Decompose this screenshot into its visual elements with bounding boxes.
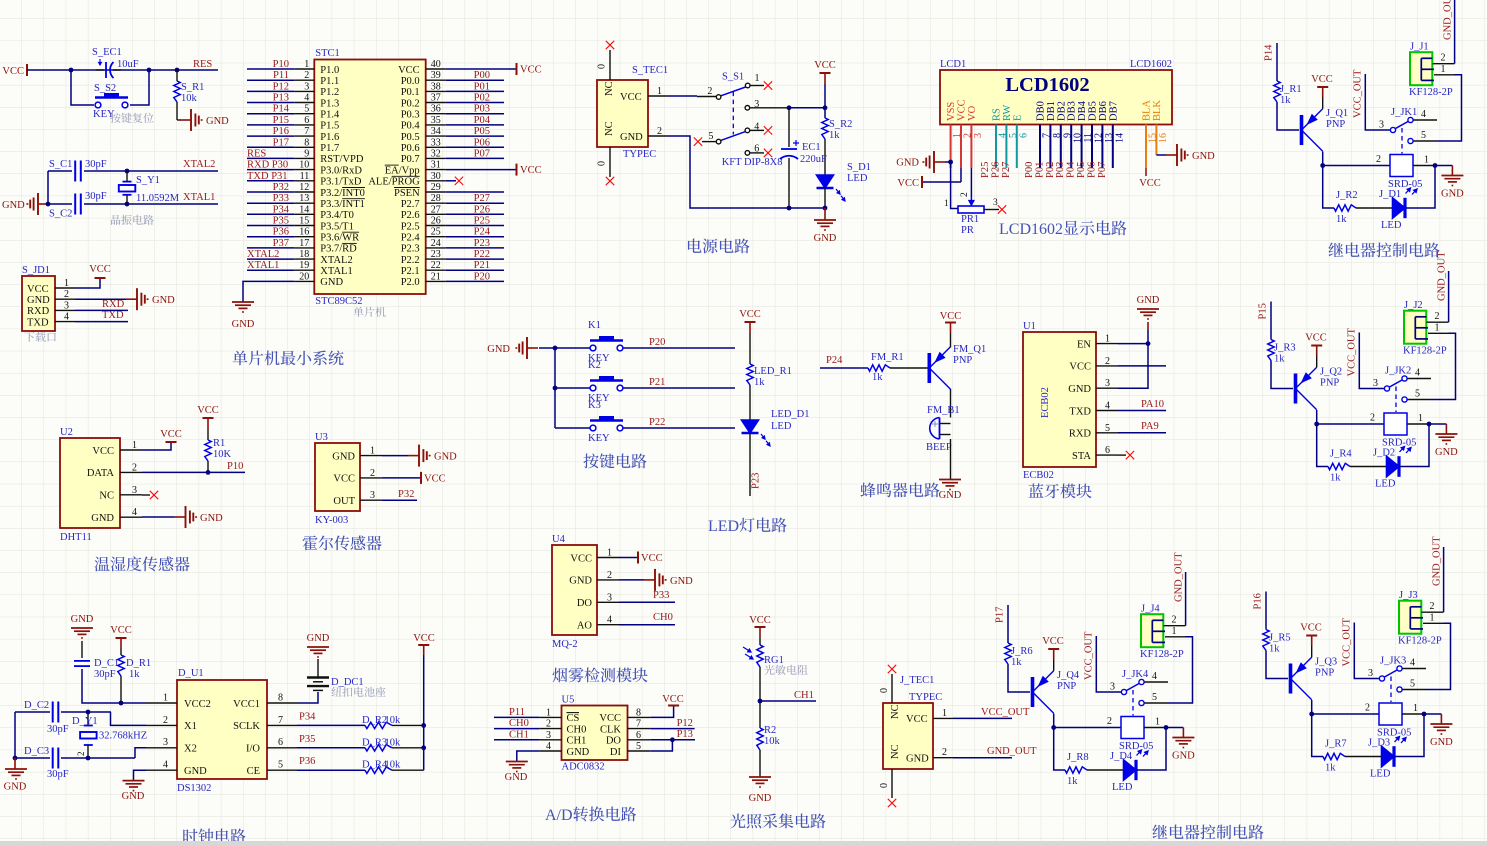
svg-text:E: E: [1012, 115, 1023, 121]
svg-text:1k: 1k: [1269, 644, 1280, 655]
svg-text:P05: P05: [1076, 162, 1087, 178]
svg-text:PA10: PA10: [1141, 399, 1164, 410]
battery D_DC1: [307, 678, 329, 691]
svg-text:2: 2: [1430, 601, 1435, 612]
wire: [539, 347, 593, 349]
svg-text:J_JK1: J_JK1: [1391, 107, 1417, 118]
svg-text:4: 4: [132, 507, 137, 518]
svg-text:VSS: VSS: [946, 102, 957, 121]
svg-text:GND: GND: [906, 754, 929, 765]
svg-text:1: 1: [163, 692, 168, 703]
led arrows: [761, 434, 770, 446]
pin 4 TXD: [1069, 401, 1118, 418]
svg-text:P12: P12: [677, 718, 693, 729]
switch J_JK1: [1390, 117, 1413, 153]
wire: [446, 191, 504, 193]
wire: [1270, 302, 1272, 340]
svg-text:XTAL1: XTAL1: [320, 266, 352, 277]
pin 26 P2.5: [401, 216, 446, 233]
svg-text:R2: R2: [764, 725, 776, 736]
svg-text:D_R1: D_R1: [126, 658, 151, 669]
wire: [75, 309, 128, 311]
junction: [787, 206, 792, 211]
wire: [1137, 728, 1167, 771]
wire: [1118, 344, 1148, 389]
junction: [1422, 712, 1427, 717]
pin 2 GND: [569, 570, 619, 587]
wire: [47, 171, 49, 204]
wire: [1118, 365, 1166, 367]
wire: [446, 269, 504, 271]
svg-text:11: 11: [300, 171, 310, 182]
svg-text:6: 6: [304, 115, 309, 126]
wire: [446, 280, 504, 282]
pin 4: [1414, 109, 1438, 120]
wire: [1406, 166, 1436, 209]
svg-text:NC: NC: [99, 491, 114, 502]
svg-text:3: 3: [1373, 378, 1378, 389]
pin 1: [750, 73, 764, 85]
pin 1: [1413, 155, 1436, 166]
caption 按键电路: [583, 453, 598, 468]
adc U5 ADC0832: [562, 706, 628, 761]
wire: [382, 499, 417, 501]
resistor R2: [757, 728, 763, 750]
svg-text:DB5: DB5: [1088, 101, 1099, 121]
no-connect: [150, 491, 158, 499]
svg-text:P11: P11: [509, 707, 525, 718]
svg-text:P1.3: P1.3: [320, 98, 339, 109]
pin NC top: [597, 50, 616, 96]
capacitor EC1: [780, 108, 799, 209]
wire: [824, 188, 826, 208]
caption 单片机最小系统: [233, 351, 248, 366]
svg-text:VCC: VCC: [749, 615, 771, 626]
wire: [1323, 165, 1390, 167]
wire: [554, 348, 556, 428]
wire: [1276, 43, 1278, 81]
pin 40 VCC: [398, 59, 446, 76]
pin 1: [1165, 626, 1186, 637]
svg-text:S_D1: S_D1: [847, 162, 871, 173]
svg-text:J_TEC1: J_TEC1: [900, 675, 934, 686]
junction: [1146, 341, 1151, 346]
svg-text:D_R2: D_R2: [362, 715, 387, 726]
wire: [446, 113, 504, 115]
svg-text:P13: P13: [677, 729, 693, 740]
svg-text:15: 15: [299, 216, 309, 227]
connector J_J2: [1404, 311, 1428, 344]
relay arrows: [1400, 447, 1412, 454]
svg-text:3: 3: [1379, 120, 1384, 131]
wire: [1271, 361, 1293, 389]
junction: [13, 756, 18, 761]
svg-text:24: 24: [431, 238, 441, 249]
svg-text:J_R7: J_R7: [1325, 739, 1347, 750]
svg-text:P01: P01: [1034, 162, 1045, 178]
svg-text:DB1: DB1: [1046, 101, 1057, 121]
svg-text:P3.4/T0: P3.4/T0: [320, 210, 354, 221]
pin 1 VCC: [92, 440, 142, 457]
no-connect: [606, 177, 614, 185]
svg-text:LED_R1: LED_R1: [754, 366, 792, 377]
svg-text:2: 2: [1370, 413, 1375, 424]
svg-text:5: 5: [1410, 679, 1415, 690]
svg-text:LCD1: LCD1: [940, 59, 966, 70]
svg-text:1k: 1k: [1274, 354, 1285, 365]
wire: [650, 739, 695, 741]
svg-text:37: 37: [431, 93, 441, 104]
svg-text:26: 26: [431, 216, 441, 227]
svg-text:J_D1: J_D1: [1379, 189, 1401, 200]
photoresistor RG1: [743, 645, 763, 667]
svg-text:P3.7/RD: P3.7/RD: [320, 244, 357, 255]
wire: [247, 79, 294, 81]
wire: [71, 70, 94, 105]
svg-text:VCC: VCC: [92, 446, 114, 457]
svg-text:J_Q4: J_Q4: [1057, 670, 1080, 681]
svg-text:GND: GND: [91, 513, 114, 524]
svg-text:16: 16: [1158, 133, 1169, 143]
svg-text:1: 1: [132, 440, 137, 451]
relay arrows: [1406, 188, 1418, 195]
connector J_J3: [1399, 601, 1423, 634]
svg-text:P35: P35: [273, 216, 289, 227]
wire: [1447, 333, 1456, 399]
svg-text:ECB02: ECB02: [1040, 387, 1051, 418]
wire: [950, 439, 952, 480]
svg-text:DB6: DB6: [1098, 101, 1109, 121]
switch K2: [590, 376, 623, 391]
svg-text:SCLK: SCLK: [233, 721, 260, 732]
svg-text:J_J2: J_J2: [1404, 300, 1423, 311]
svg-text:6: 6: [1105, 445, 1110, 456]
svg-text:GND: GND: [487, 344, 510, 355]
svg-text:STA: STA: [1072, 451, 1091, 462]
wire: [1118, 410, 1166, 412]
pin 4 TXD: [27, 312, 75, 329]
svg-text:3: 3: [304, 81, 309, 92]
svg-text:P2.5: P2.5: [401, 221, 420, 232]
svg-text:GND_OUT: GND_OUT: [987, 746, 1037, 757]
power VCC: [897, 176, 922, 189]
svg-text:P3.1/TxD: P3.1/TxD: [320, 177, 362, 188]
svg-text:VCC_OUT: VCC_OUT: [1353, 69, 1364, 118]
svg-text:BLK: BLK: [1152, 100, 1163, 121]
pin 2: [1433, 53, 1455, 64]
svg-text:8: 8: [304, 137, 309, 148]
svg-text:P1.0: P1.0: [320, 65, 339, 76]
wire: [1145, 168, 1147, 176]
svg-text:P16: P16: [273, 126, 289, 137]
svg-text:PNP: PNP: [1326, 119, 1345, 130]
svg-text:NC: NC: [604, 121, 615, 136]
svg-text:S_C2: S_C2: [49, 209, 72, 220]
pin 1: [1407, 413, 1430, 424]
pin 28 P2.7: [401, 193, 446, 210]
svg-text:VCC: VCC: [27, 284, 49, 295]
pin 4: [1145, 671, 1169, 682]
svg-text:GND: GND: [71, 614, 94, 625]
svg-text:DB3: DB3: [1067, 101, 1078, 121]
svg-text:GND: GND: [749, 793, 772, 804]
ground: [1436, 166, 1464, 200]
wire: [446, 68, 516, 70]
pin 8 DB1: [1046, 101, 1063, 168]
junction: [1433, 163, 1438, 168]
comment 按键复位: [110, 113, 120, 123]
wire: [392, 747, 424, 749]
wire: [1118, 432, 1166, 434]
svg-text:S_EC1: S_EC1: [92, 47, 122, 58]
pin 4 GND: [91, 507, 142, 524]
wire: [1054, 728, 1065, 771]
pin 33 P0.6: [401, 137, 446, 154]
svg-text:GND: GND: [4, 782, 27, 793]
svg-text:1k: 1k: [829, 130, 840, 141]
svg-text:20: 20: [299, 271, 309, 282]
svg-text:1: 1: [304, 59, 309, 70]
power VCC: [940, 311, 962, 348]
pin 7 DB0: [1036, 101, 1053, 168]
wire: [446, 247, 504, 249]
ground: [1137, 295, 1160, 319]
svg-text:VCC1: VCC1: [233, 699, 260, 710]
svg-text:VCC: VCC: [1042, 636, 1064, 647]
svg-text:P37: P37: [273, 238, 289, 249]
pin 5: [1414, 130, 1454, 141]
svg-text:30pF: 30pF: [85, 191, 107, 202]
svg-text:VCC: VCC: [160, 429, 182, 440]
svg-text:FM_Q1: FM_Q1: [953, 344, 986, 355]
wire: [619, 624, 675, 626]
svg-text:J_R1: J_R1: [1280, 84, 1302, 95]
svg-text:GND_OUT: GND_OUT: [1174, 552, 1185, 602]
svg-text:NC: NC: [604, 81, 615, 96]
ground: [814, 208, 837, 244]
svg-text:1k: 1k: [754, 377, 765, 388]
svg-text:VCC: VCC: [398, 65, 420, 76]
svg-text:P25: P25: [980, 162, 991, 178]
ground: [939, 480, 962, 502]
wire: [650, 728, 694, 730]
svg-text:3: 3: [1105, 378, 1110, 389]
svg-text:P21: P21: [649, 377, 665, 388]
svg-text:P0.5: P0.5: [401, 132, 420, 143]
pin 5 P1.4: [294, 104, 340, 121]
pin 2 P1.1: [294, 70, 339, 87]
ground: [232, 302, 255, 330]
svg-text:CLK: CLK: [600, 724, 621, 735]
svg-text:1: 1: [1105, 334, 1110, 345]
switch K3: [590, 416, 623, 431]
pin 4 GND: [540, 741, 590, 758]
svg-text:VCC: VCC: [197, 405, 219, 416]
svg-text:BLA: BLA: [1142, 100, 1153, 121]
svg-text:J_D3: J_D3: [1368, 738, 1390, 749]
svg-text:GND: GND: [206, 116, 229, 127]
ground: [644, 569, 693, 591]
wire: [247, 225, 294, 227]
module U1 ECB02: [1023, 332, 1096, 467]
svg-text:EC1: EC1: [802, 142, 821, 153]
svg-text:P0.1: P0.1: [401, 87, 420, 98]
svg-text:5: 5: [1421, 130, 1426, 141]
svg-text:P14: P14: [1264, 44, 1275, 61]
svg-text:TXD: TXD: [27, 317, 49, 328]
svg-text:1k: 1k: [872, 372, 883, 383]
svg-text:TYPEC: TYPEC: [623, 149, 656, 160]
svg-text:30pF: 30pF: [85, 159, 107, 170]
relay K1 SRD-05: [1390, 155, 1413, 177]
svg-text:P33: P33: [273, 193, 289, 204]
ground: [180, 109, 229, 131]
resistor J_R3: [1268, 340, 1274, 361]
svg-text:4: 4: [64, 312, 69, 323]
svg-text:0: 0: [879, 688, 890, 693]
svg-text:P0.4: P0.4: [401, 121, 421, 132]
svg-text:3: 3: [546, 730, 551, 741]
ground: [4, 758, 27, 793]
svg-text:VCC_OUT: VCC_OUT: [981, 707, 1030, 718]
pin 30 ALE/PROG: [368, 171, 445, 188]
svg-text:PNP: PNP: [1315, 668, 1334, 679]
svg-text:P02: P02: [1045, 162, 1056, 178]
svg-text:8: 8: [278, 692, 283, 703]
pin 3 RXD: [27, 300, 75, 317]
wire: [1184, 637, 1193, 703]
pin 8 VCC: [599, 707, 650, 724]
junction: [86, 710, 91, 715]
wire: [247, 68, 294, 70]
svg-text:1: 1: [1155, 717, 1160, 728]
pin 5 RXD: [1069, 423, 1118, 440]
wire: [1008, 664, 1030, 692]
svg-text:S_R2: S_R2: [829, 119, 852, 130]
svg-text:VCC: VCC: [89, 264, 111, 275]
wire: [446, 102, 504, 104]
svg-text:GND: GND: [122, 791, 145, 802]
svg-text:P07: P07: [474, 148, 490, 159]
svg-text:TYPEC: TYPEC: [909, 692, 942, 703]
svg-text:S_R1: S_R1: [181, 82, 204, 93]
svg-text:FM_R1: FM_R1: [871, 352, 904, 363]
wire: [789, 107, 825, 109]
svg-text:GND: GND: [200, 513, 223, 524]
wire: [382, 477, 420, 479]
svg-text:PNP: PNP: [1320, 378, 1339, 389]
junction: [46, 202, 51, 207]
svg-text:P15: P15: [1258, 303, 1269, 319]
pin 1: [1428, 322, 1449, 333]
transistor J_Q1: [1300, 109, 1323, 151]
ground: [1167, 728, 1195, 762]
resistor J_R8: [1065, 767, 1087, 773]
svg-text:30pF: 30pF: [47, 724, 69, 735]
svg-text:2: 2: [546, 719, 551, 730]
wire: [392, 724, 424, 726]
pin 3 GND: [1068, 378, 1118, 395]
pin 1 P1.0: [294, 59, 339, 76]
svg-text:EN: EN: [1077, 339, 1091, 350]
pin 3 X2: [146, 737, 197, 754]
svg-text:DB2: DB2: [1056, 101, 1067, 121]
svg-text:LED: LED: [1375, 479, 1396, 490]
power VCC: [638, 552, 663, 565]
svg-text:P2.7: P2.7: [401, 199, 420, 210]
svg-text:29: 29: [431, 182, 441, 193]
wire: [1317, 423, 1384, 425]
power VCC: [413, 633, 435, 645]
wire: [1054, 727, 1121, 729]
wire: [960, 168, 962, 182]
svg-text:0: 0: [597, 161, 608, 166]
wire: [247, 269, 294, 271]
pin 4 AO: [577, 615, 619, 632]
svg-text:LED: LED: [1381, 220, 1402, 231]
svg-text:RW: RW: [1002, 105, 1013, 121]
svg-text:VCC: VCC: [333, 474, 355, 485]
svg-text:P1.1: P1.1: [320, 76, 339, 87]
svg-text:GND: GND: [939, 490, 962, 501]
svg-text:VCC: VCC: [897, 178, 919, 189]
pin 4 GND: [146, 760, 207, 777]
svg-text:VCC: VCC: [424, 473, 446, 484]
svg-text:PNP: PNP: [953, 355, 972, 366]
svg-text:P1.4: P1.4: [320, 110, 340, 121]
pin 8 P1.7: [294, 137, 339, 154]
svg-text:13: 13: [299, 193, 309, 204]
wire: [446, 90, 504, 92]
svg-text:2: 2: [1441, 53, 1446, 64]
svg-text:2: 2: [607, 570, 612, 581]
svg-text:1k: 1k: [1330, 473, 1341, 484]
svg-text:P0.7: P0.7: [401, 154, 420, 165]
svg-text:GND: GND: [332, 451, 355, 462]
led J_D2: [1387, 456, 1400, 477]
svg-text:3: 3: [132, 485, 137, 496]
wire: [1317, 424, 1328, 467]
wire: [619, 601, 675, 603]
svg-text:X1: X1: [184, 721, 197, 732]
svg-text:GND: GND: [2, 200, 25, 211]
pin 5: [1408, 389, 1448, 400]
wire: [1356, 207, 1393, 209]
pin 12 P3.2/INT0: [294, 182, 365, 199]
svg-text:GND_OUT: GND_OUT: [1437, 251, 1448, 301]
svg-text:3: 3: [973, 133, 984, 138]
wire: [824, 139, 826, 175]
svg-text:P2.1: P2.1: [401, 266, 420, 277]
capacitor D_C3: [15, 748, 135, 769]
svg-text:RXD: RXD: [1069, 429, 1092, 440]
pin 4: [750, 121, 764, 132]
svg-text:CH1: CH1: [567, 736, 587, 747]
wire: [446, 79, 504, 81]
led arrows: [836, 189, 845, 201]
svg-text:P27: P27: [474, 193, 490, 204]
wire: [668, 136, 825, 208]
svg-text:DS1302: DS1302: [177, 783, 211, 794]
pin 2 X1: [146, 715, 197, 732]
svg-text:6: 6: [1018, 133, 1029, 138]
junction: [125, 169, 130, 174]
wire: [446, 146, 504, 148]
wire: [950, 389, 952, 418]
svg-text:5: 5: [1415, 389, 1420, 400]
svg-text:14: 14: [299, 204, 309, 215]
pin 1 CS: [540, 707, 580, 724]
